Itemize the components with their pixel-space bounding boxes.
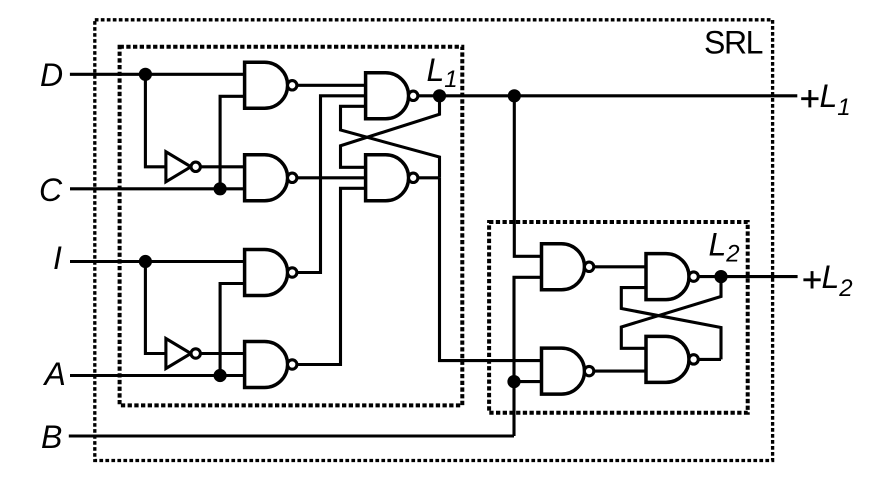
inner dotted L2 section box bbox=[489, 222, 748, 413]
wire B vertical to gate G7 lower input bbox=[514, 277, 542, 436]
wire L1 feedback to gate G6 upper input bbox=[341, 96, 440, 168]
wire I input line bbox=[70, 260, 245, 263]
wire G10 feedback to gate G9 lower input bbox=[621, 288, 721, 360]
svg-text:L1: L1 bbox=[820, 78, 851, 121]
wire gate G1 output to latch gate G5 bbox=[297, 84, 366, 87]
inverter U2 bbox=[166, 339, 201, 369]
svg-text:SRL: SRL bbox=[704, 25, 763, 61]
wire gate G8 output to latch gate G10 bbox=[594, 370, 646, 373]
svg-text:L2: L2 bbox=[822, 259, 853, 302]
wire L1 down to gate G7 upper input bbox=[514, 96, 541, 256]
wire gate G4 output up to latch gate G6 lower input bbox=[297, 188, 366, 364]
wire inverter U2 output to gate G4 bbox=[200, 352, 244, 355]
output label +L2 bbox=[803, 271, 820, 288]
NAND gate G3 bbox=[245, 250, 297, 296]
NAND gate G10 L2 latch bottom bbox=[646, 336, 698, 382]
svg-text:A: A bbox=[43, 356, 66, 392]
wire A to gate G3 lower input bbox=[220, 284, 245, 376]
NAND gate G6 L1 latch bottom bbox=[366, 155, 418, 201]
node A junction dot bbox=[214, 369, 227, 382]
node L2 output junction dot bbox=[714, 270, 727, 283]
node L1 line to L2 junction dot bbox=[508, 89, 521, 102]
outer dotted SRL boundary box bbox=[95, 20, 773, 461]
svg-text:D: D bbox=[40, 57, 63, 93]
svg-text:L1: L1 bbox=[427, 52, 458, 93]
NAND gate G2 bbox=[245, 155, 297, 201]
wire gate G6 output stub bbox=[418, 176, 440, 179]
svg-text:B: B bbox=[41, 419, 62, 455]
inverter U1 bbox=[166, 152, 201, 182]
wire gate G10 output stub bbox=[698, 358, 721, 361]
inner dotted L1 section box bbox=[120, 47, 463, 406]
wire L1 output line to +L1 bbox=[418, 94, 797, 97]
wire L2 output line to +L2 bbox=[698, 275, 797, 278]
wire B dot to gate G8 lower input bbox=[514, 380, 542, 383]
wire I to inverter U2 bbox=[145, 262, 166, 354]
svg-text:I: I bbox=[53, 240, 62, 276]
wire D to inverter U1 bbox=[145, 74, 166, 167]
wire D input line bbox=[70, 73, 245, 76]
NAND gate G5 L1 latch top bbox=[366, 73, 418, 119]
wire C input line bbox=[70, 187, 245, 190]
wire A input line bbox=[70, 374, 245, 377]
NAND gate G7 L2 input top bbox=[542, 244, 594, 290]
node B junction dot bbox=[507, 375, 520, 388]
NAND gate G8 L2 input bottom bbox=[542, 348, 594, 394]
wire G6 feedback to gate G5 lower input bbox=[341, 106, 440, 178]
svg-text:L2: L2 bbox=[709, 227, 740, 268]
wire L2 feedback to gate G10 upper input bbox=[621, 277, 721, 349]
wire B input line bbox=[69, 434, 514, 437]
NAND gate G4 bbox=[245, 342, 297, 388]
wire gate G2 output to latch gate G6 bbox=[297, 176, 366, 179]
node L1 output junction dot bbox=[433, 89, 446, 102]
NAND gate G1 bbox=[245, 62, 297, 108]
wire G6 output down to gate G8 upper input bbox=[440, 178, 542, 361]
node I junction dot bbox=[139, 255, 152, 268]
wire gate G3 output up to latch gate G5 middle input bbox=[297, 96, 366, 273]
node C junction dot bbox=[214, 182, 227, 195]
wire gate G7 output to latch gate G9 bbox=[594, 265, 646, 268]
NAND gate G9 L2 latch top bbox=[646, 254, 698, 300]
wire C to gate G1 lower input bbox=[220, 96, 245, 189]
svg-text:C: C bbox=[39, 172, 63, 208]
output label +L1 bbox=[801, 90, 818, 107]
wire inverter U1 output to gate G2 bbox=[200, 165, 244, 168]
node D junction dot bbox=[139, 68, 152, 81]
